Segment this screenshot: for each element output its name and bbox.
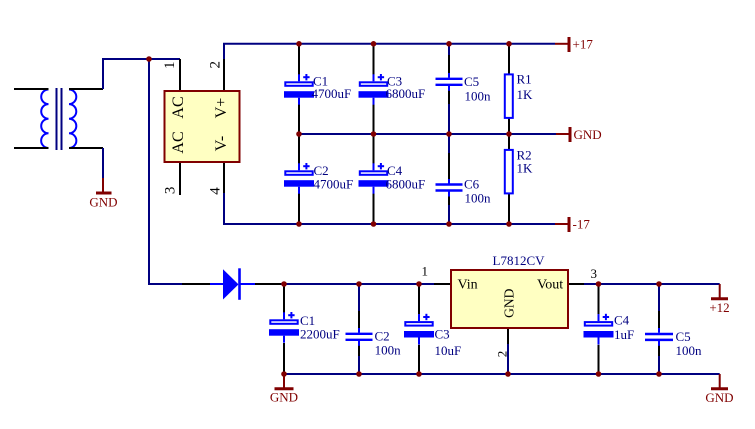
wire: regulator pin 2 to ground rail [507,344,509,374]
power port -17 [555,217,590,232]
power port +17 [555,37,593,53]
capacitor C5 leads [448,44,450,56]
svg-text:Vout: Vout [537,278,563,293]
power port +12 [709,284,729,315]
capacitor C4 (1uF electrolytic) [584,314,614,345]
svg-text:1K: 1K [517,161,534,176]
svg-text:1: 1 [162,61,178,69]
svg-text:2200uF: 2200uF [300,327,340,342]
svg-text:GND: GND [502,288,517,317]
capacitor C4 (bottom) leads [598,284,600,314]
wire: bridge pin 2 riser [224,44,555,59]
svg-text:V-: V- [213,136,230,151]
junction dots ground rail [281,371,287,377]
regulator U2 pin 3 lead [569,283,584,285]
wire: bottom ground rail [284,373,720,375]
transformer T1 secondary pin leads [69,88,103,90]
svg-text:L7812CV: L7812CV [493,253,546,268]
capacitor C6 leads [448,134,450,154]
wire: bridge pin 4 to -17 rail [224,193,555,224]
svg-text:4700uF: 4700uF [312,86,352,101]
bridge U1 pin 4 [223,163,225,193]
wire: node A to bridge pin 1 [149,58,180,60]
wire: main vertical from node A down to diode row [149,59,182,284]
junction node A [146,56,152,62]
svg-text:C3: C3 [435,327,450,342]
transformer T1 secondary winding [69,90,76,149]
capacitor C1 leads [298,44,300,75]
transformer T1 primary winding [41,90,48,149]
wire: transformer secondary bottom down to ground [102,148,104,179]
capacitor C1 (bottom) leads [283,284,285,313]
resistor R2 leads [508,134,510,150]
capacitor C2 (100n) [346,328,373,346]
svg-text:3: 3 [163,187,179,195]
bridge U1 pin 1 [179,59,181,90]
svg-text:-17: -17 [573,217,591,232]
svg-text:GND: GND [270,390,298,405]
transformer T1 primary pin leads [14,88,49,90]
capacitor C4 (6800uF electrolytic) [359,163,389,194]
resistor R2 (1K) [505,150,513,194]
junction dots -17 rail [296,221,302,227]
wire: bottom rail A to regulator pin 1 [284,283,434,285]
svg-text:C5: C5 [676,329,691,344]
svg-text:C4: C4 [614,313,630,328]
transformer T1 core [56,88,58,150]
power port GND (mid rail) [556,127,602,142]
ground power port below transformer [89,178,117,209]
svg-text:4: 4 [208,187,224,195]
svg-text:100n: 100n [375,343,402,358]
svg-text:C2: C2 [375,329,390,344]
svg-text:C6: C6 [464,177,480,192]
capacitor C6 (100n) [436,179,463,197]
capacitor C3 (10uF electrolytic) [404,314,434,345]
regulator U2 body L7812CV [451,270,568,328]
svg-text:GND: GND [89,194,117,209]
svg-text:AC: AC [170,131,187,153]
ground power port below C1 (bottom) [270,374,298,405]
wire: regulator pin 3 to +12 port [584,283,720,285]
regulator U2 pin 2 lead [507,329,509,345]
junction dots rail A [281,281,287,287]
svg-text:C5: C5 [464,74,479,89]
bridge rectifier U1 body [165,91,240,162]
capacitor C5 (bottom) leads [658,284,660,312]
capacitor C3 (6800uF electrolytic) [359,74,389,105]
svg-text:4700uF: 4700uF [314,177,354,192]
svg-text:AC: AC [170,96,187,118]
capacitor C4 leads [373,134,375,164]
junction dots top rail [296,41,302,47]
svg-text:V+: V+ [213,98,230,119]
capacitor C1 (4700uF electrolytic) [284,74,314,105]
svg-text:+17: +17 [573,37,594,52]
wire: diode to C1 node [281,283,284,285]
svg-text:R1: R1 [517,72,532,87]
svg-text:GND: GND [574,127,602,142]
capacitor C5 (100n) [436,73,463,91]
svg-text:2: 2 [208,61,224,69]
svg-text:100n: 100n [465,89,492,104]
svg-text:10uF: 10uF [435,343,462,358]
bridge U1 pin 2 [223,59,225,90]
wire: transformer secondary top to node A [103,59,149,89]
capacitor C2 (bottom) leads [358,284,360,312]
svg-text:100n: 100n [465,190,492,205]
power port GND (bottom right) [705,374,733,405]
capacitor C3 (bottom) leads [418,284,420,314]
capacitor C5 (100n) [645,328,673,346]
diode D1 leads [182,283,211,285]
svg-text:100n: 100n [676,343,703,358]
resistor R1 (1K) [505,74,513,118]
svg-text:3: 3 [591,266,598,281]
regulator U2 pin 1 lead [434,283,450,285]
junction dots mid rail [296,131,302,137]
svg-text:+12: +12 [709,300,729,315]
diode D1 [210,268,255,300]
svg-text:6800uF: 6800uF [386,177,426,192]
capacitor C2 (4700uF electrolytic) [284,163,314,194]
svg-text:Vin: Vin [458,278,478,293]
resistor R1 leads [508,44,510,75]
svg-text:GND: GND [705,390,733,405]
svg-text:1: 1 [422,264,429,279]
wire: mid GND rail [299,133,556,135]
svg-text:1uF: 1uF [614,327,634,342]
svg-text:1K: 1K [517,87,534,102]
capacitor C1 (2200uF electrolytic) [269,312,299,343]
svg-text:6800uF: 6800uF [386,86,426,101]
capacitor C2 leads [298,134,300,164]
capacitor C3 leads [373,44,375,75]
bridge U1 pin 3 [179,163,181,195]
